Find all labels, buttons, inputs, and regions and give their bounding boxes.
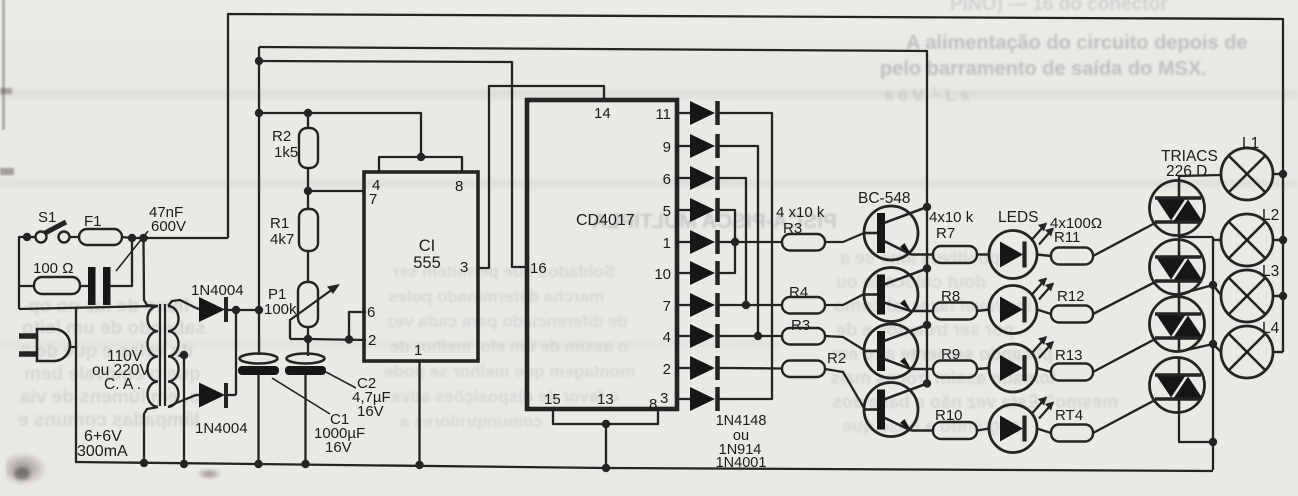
diode D5 1N4148 — [677, 177, 690, 179]
node 4017 gnd strap — [602, 420, 610, 428]
svg-text:1N4148: 1N4148 — [716, 413, 767, 429]
bleed-through text — [20, 341, 193, 363]
node group1 junction — [731, 238, 739, 246]
diode D9 1N4148 — [677, 304, 690, 306]
bleed-through text — [392, 262, 615, 282]
wire +V to CD4017 pin 16 — [259, 61, 527, 267]
svg-text:7: 7 — [663, 298, 671, 315]
wire +V to transistor rail (top) — [259, 47, 927, 383]
svg-text:CI: CI — [419, 237, 436, 255]
wire top AC rail — [228, 14, 1283, 352]
svg-text:4 x10 k: 4 x10 k — [776, 204, 825, 221]
transistor Q3 BC-548 — [864, 324, 918, 378]
wire tap to L4 — [1213, 344, 1221, 352]
svg-text:RT4: RT4 — [1055, 407, 1083, 424]
svg-text:L3: L3 — [1262, 263, 1279, 280]
node pin2/pin6 tie — [345, 335, 353, 343]
node L1 on AC rail — [1279, 170, 1287, 178]
node +V junction — [255, 306, 263, 314]
wire 555 pins 4,7/8 supply strap — [379, 157, 462, 172]
node center tap — [180, 351, 188, 359]
transformer T1 core — [159, 304, 161, 406]
wire Q8 bus (pin 9) — [730, 146, 758, 336]
node primary bottom on rail — [140, 459, 148, 467]
svg-text:555: 555 — [413, 254, 441, 272]
wire AC lower run to primary — [19, 306, 155, 309]
svg-text:100k: 100k — [264, 301, 297, 318]
svg-text:R2: R2 — [272, 128, 291, 145]
svg-text:L1: L1 — [1242, 135, 1259, 152]
svg-text:1: 1 — [414, 342, 422, 359]
bleed-through text — [384, 362, 635, 382]
svg-text:3: 3 — [460, 259, 468, 276]
bleed-through text — [884, 86, 969, 106]
svg-text:1: 1 — [663, 235, 671, 252]
bleed-through text — [880, 58, 1207, 81]
svg-text:4: 4 — [663, 329, 671, 346]
bleed-through text — [840, 248, 1000, 269]
triac TR1 TIC226D — [1150, 181, 1205, 236]
wire +V to 555 pins 8,4 — [259, 113, 421, 157]
svg-text:226 D: 226 D — [1166, 163, 1207, 180]
bleed-through text — [382, 387, 619, 407]
transformer T1 primary — [147, 306, 158, 407]
svg-text:R1: R1 — [270, 215, 289, 232]
diode D7 1N4148 — [677, 241, 690, 243]
node R2/R1 junction — [304, 187, 312, 195]
capacitor C1 1000uF — [240, 354, 278, 364]
bleed-through text — [832, 392, 1118, 413]
wire pointer to C1 — [272, 378, 330, 414]
svg-text:R13: R13 — [1055, 347, 1083, 364]
node group3 junction — [754, 332, 762, 340]
wire CD4017 pins 15,13,8 to rail — [553, 409, 658, 424]
wire TR4 MT1 to tap vertical — [1179, 413, 1213, 443]
wire R4 to Q2 base — [825, 294, 864, 305]
LED D14 — [977, 310, 989, 312]
smudge marks — [6, 452, 48, 486]
node supply strap junction — [417, 153, 425, 161]
wire L1 to AC rail — [1273, 173, 1283, 175]
wire TR1 MT2 to L1 — [1179, 175, 1221, 181]
wire bottom common rail — [75, 462, 1213, 471]
svg-text:100 Ω: 100 Ω — [33, 260, 73, 277]
LED D13 — [977, 253, 989, 255]
wire junction to top-rail riser — [144, 237, 229, 239]
svg-text:R11: R11 — [1054, 229, 1080, 246]
bleed-through text — [836, 272, 986, 293]
LED D15 — [977, 368, 989, 369]
node L2 on AC rail — [1279, 236, 1287, 244]
wire TR1 MT1 / TR2 MT2 tie with L2 tap — [1179, 236, 1213, 238]
bleed-through text — [386, 312, 628, 332]
svg-text:16: 16 — [530, 260, 547, 277]
wire secondary top lead — [168, 300, 196, 308]
wire 555 pin 1 to rail — [418, 361, 420, 465]
wire Q9/Q0 bus (pins 11,3) — [730, 113, 772, 399]
bleed-through text — [592, 210, 837, 234]
svg-text:10: 10 — [654, 266, 671, 283]
node Q2 collector on rail — [923, 264, 931, 272]
svg-text:R2: R2 — [827, 350, 846, 367]
svg-text:9: 9 — [663, 139, 671, 156]
node F1 output junction — [128, 234, 136, 242]
node center tap on rail — [180, 460, 188, 468]
node 555 pin1 on rail — [415, 461, 423, 469]
wire L3 to AC rail — [1273, 295, 1283, 297]
wire R12 to triac gate — [1093, 281, 1157, 314]
bleed-through text — [832, 344, 1053, 365]
node rectifier output — [232, 306, 240, 314]
node group2 junction — [742, 301, 750, 309]
wire tap to TR2 MT1 — [1180, 285, 1213, 294]
plug P1 mains — [37, 329, 70, 361]
svg-text:1k5: 1k5 — [274, 144, 298, 161]
svg-text:1N4004: 1N4004 — [195, 420, 248, 437]
node 4017 gnd on rail — [602, 464, 610, 472]
LED D16 — [977, 429, 989, 431]
svg-text:R3: R3 — [791, 317, 810, 334]
svg-text:8: 8 — [649, 396, 657, 413]
paper background texture bands — [0, 90, 1298, 98]
wire R13 to triac gate — [1093, 338, 1157, 372]
svg-text:S1: S1 — [38, 209, 56, 226]
svg-text:2: 2 — [368, 332, 376, 349]
wire primary top lead — [144, 238, 159, 306]
svg-text:R7: R7 — [936, 225, 955, 242]
wire center tap — [179, 355, 185, 464]
svg-text:16V: 16V — [357, 403, 384, 420]
svg-text:11: 11 — [655, 106, 671, 123]
wire plug lead — [71, 346, 76, 348]
diode D11 1N4148 — [677, 367, 690, 369]
diode D12 1N4148 — [677, 398, 690, 400]
wire primary bottom to rail — [144, 407, 158, 463]
node +V branch to 555 supply — [255, 109, 263, 117]
wire +V vertical — [258, 47, 260, 355]
svg-text:7: 7 — [369, 191, 377, 208]
capacitor 47nF — [80, 285, 88, 287]
lamp L4 — [1221, 326, 1273, 378]
svg-text:16V: 16V — [325, 439, 352, 456]
node C2 on rail — [301, 460, 309, 468]
svg-text:L4: L4 — [1262, 320, 1280, 337]
wire L4 to AC rail — [1273, 351, 1283, 353]
lamp L3 — [1221, 270, 1273, 322]
wire Q6 bus (pin 5) — [730, 210, 735, 242]
op-amp U1 CI 555 — [364, 172, 478, 361]
node L3 on AC rail — [1279, 292, 1287, 300]
node C1 on rail — [254, 460, 262, 468]
transistor Q4 BC-548 — [864, 383, 918, 437]
node primary feed junction — [139, 234, 147, 242]
svg-text:CD4017: CD4017 — [576, 212, 635, 229]
bleed-through text — [830, 368, 1056, 389]
svg-text:8: 8 — [455, 178, 463, 195]
wire lamp tap vertical — [1212, 237, 1214, 470]
transistor Q1 BC-548 — [864, 206, 918, 260]
svg-text:LEDS: LEDS — [998, 209, 1039, 226]
svg-text:600V: 600V — [151, 218, 186, 235]
wire pointer to C2 — [326, 372, 356, 388]
svg-text:R4: R4 — [789, 284, 808, 301]
wire D2 cathode riser — [235, 310, 237, 395]
bleed-through text — [18, 410, 200, 432]
wire tap to TR3 MT1 — [1180, 344, 1213, 352]
bleed-through text — [390, 337, 628, 357]
node tap TR3/TR4 — [1209, 340, 1217, 348]
bleed-through text — [836, 320, 1014, 341]
triac TR3 TIC226D — [1150, 297, 1205, 352]
bleed-through text — [20, 387, 201, 409]
svg-text:4x10 k: 4x10 k — [929, 209, 974, 226]
node P1 bottom junction — [304, 335, 312, 343]
wire L2 to AC rail — [1273, 239, 1283, 241]
svg-text:14: 14 — [594, 105, 611, 122]
wire to 555 pin 4,7 — [308, 190, 364, 192]
node TR4 MT1 junction — [1209, 438, 1217, 446]
bleed-through text — [388, 287, 604, 307]
transistor Q2 BC-548 — [864, 268, 918, 322]
svg-text:2: 2 — [663, 361, 671, 378]
node +V branch to 4017 pin16 — [255, 57, 263, 65]
wire R5 to Q3 base — [825, 336, 864, 350]
node AC input junction — [23, 233, 31, 241]
svg-text:BC-548: BC-548 — [858, 190, 911, 207]
bleed-through text — [24, 364, 200, 386]
diode D6 1N4148 — [677, 209, 690, 211]
wire secondary bottom lead — [168, 395, 196, 407]
svg-text:F1: F1 — [84, 213, 102, 230]
diode D3 1N4148 — [677, 112, 690, 114]
node Q1 collector on rail — [923, 203, 931, 211]
svg-text:1N4004: 1N4004 — [191, 282, 244, 299]
svg-text:4k7: 4k7 — [270, 231, 294, 248]
lamp L2 — [1221, 214, 1273, 266]
IC U2 CD4017 — [527, 100, 677, 409]
wire Q7 bus (pin 6) — [730, 178, 746, 305]
wire group1 to R3 — [730, 241, 782, 243]
svg-text:6: 6 — [367, 304, 375, 321]
lamp L1 — [1221, 148, 1273, 200]
node Q3 collector on rail — [923, 321, 931, 329]
wire pointer to 47nF — [116, 231, 148, 271]
triac TR4 TIC226D — [1150, 358, 1205, 413]
wire P1 to 555 pins 2,6 — [308, 339, 366, 340]
svg-text:300mA: 300mA — [77, 443, 128, 460]
svg-text:15: 15 — [544, 391, 561, 408]
bleed-through text — [950, 0, 1167, 16]
wire RT4 to triac gate — [1093, 399, 1157, 433]
svg-text:C. A .: C. A . — [104, 376, 141, 393]
wire P1 wiper — [290, 286, 337, 339]
diode D4 1N4148 — [677, 145, 690, 147]
svg-text:6: 6 — [663, 171, 671, 188]
bleed-through text — [906, 32, 1248, 55]
wire group3 to R5 — [730, 335, 782, 337]
transformer T1 secondary — [168, 306, 179, 407]
bleed-through text — [28, 296, 189, 318]
bleed-through text — [400, 412, 543, 432]
bleed-through text — [834, 296, 1032, 317]
wire group2 to R4 — [730, 304, 782, 306]
wire S1 input branch — [19, 237, 27, 309]
node tap TR2/TR3 — [1209, 281, 1217, 289]
node R2 top — [304, 109, 312, 117]
wire group4 to R6 — [730, 367, 782, 370]
svg-text:L2: L2 — [1262, 207, 1279, 224]
bleed-through text — [842, 416, 1020, 437]
diode D8 1N4148 — [677, 272, 690, 274]
wire L2 stub — [1213, 239, 1221, 241]
capacitor C2 4.7uF — [287, 354, 325, 364]
diode D10 1N4148 — [677, 335, 690, 337]
svg-text:1N4001: 1N4001 — [716, 455, 767, 471]
wire R6 to Q4 base — [825, 369, 864, 408]
wire 555 pin 6 jumper — [349, 312, 366, 340]
triac TR2 TIC226D — [1150, 240, 1205, 295]
bleed-through text — [22, 318, 206, 340]
wire neutral drop to bottom rail — [75, 307, 77, 462]
wire Q4 bus (pin 10) — [730, 242, 735, 273]
wire 555 pin 3 to CD4017 clock — [478, 86, 604, 268]
wire R3 to Q1 base — [825, 233, 864, 242]
wire R11 to triac gate — [1093, 222, 1157, 256]
svg-text:3: 3 — [660, 390, 668, 407]
node Q4 collector on rail — [923, 379, 931, 387]
svg-text:R12: R12 — [1057, 288, 1085, 305]
svg-text:13: 13 — [597, 391, 614, 408]
wire tap to L3 — [1213, 285, 1221, 295]
svg-text:5: 5 — [663, 203, 671, 220]
